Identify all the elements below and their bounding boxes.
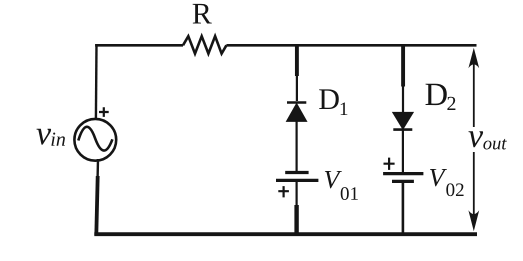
battery V01 plus polarity mark — [278, 186, 289, 197]
wire: D2 branch middle — [402, 130, 404, 173]
wire: top rail left segment — [95, 44, 183, 47]
vout arrow head down — [468, 210, 479, 231]
label V02 — [430, 169, 464, 196]
diode D1 cathode bar — [287, 101, 306, 104]
diode D2 triangle (anode, pointing down) — [393, 112, 414, 129]
wire: left vertical lower thin segment — [96, 159, 99, 178]
wire: D2 branch top stub (bold) — [401, 44, 405, 86]
battery V02 long plate (top) — [383, 172, 423, 175]
AC source plus polarity mark — [99, 107, 109, 117]
battery V01 long plate (bottom) — [276, 179, 318, 182]
vout arrow head up — [468, 48, 479, 68]
wire: D1 branch lower — [296, 182, 298, 207]
label D2 — [426, 84, 456, 110]
diode D2 cathode bar — [393, 128, 412, 131]
AC source v_in: sine wave — [78, 127, 112, 151]
wire: D1 branch top stub (bold) — [295, 44, 299, 76]
wire: bottom rail — [94, 232, 477, 236]
wire: D1 branch upper — [296, 75, 298, 102]
label D1 — [319, 89, 347, 115]
label R — [193, 4, 212, 24]
resistor R — [183, 36, 226, 53]
wire: top rail right segment — [226, 44, 476, 47]
diode D1 triangle (anode, pointing up) — [287, 104, 307, 122]
wire: D2 branch lower — [402, 182, 405, 234]
battery V02 plus polarity mark — [384, 158, 395, 170]
label v_out — [468, 131, 506, 149]
wire: left vertical lower bold segment — [96, 176, 97, 235]
wire: D1 branch middle — [296, 121, 298, 172]
label V01 — [325, 171, 358, 200]
vout arrow shaft lower — [473, 152, 475, 221]
wire: D2 branch upper — [402, 85, 404, 112]
wire: left vertical upper — [95, 44, 98, 119]
AC source v_in: circle — [74, 119, 116, 161]
vout arrow shaft upper — [473, 59, 475, 128]
battery V02 short plate (bottom) — [392, 180, 414, 183]
label v_in — [36, 129, 65, 146]
battery V01 short plate (top) — [285, 171, 308, 174]
wire: D1 branch bottom stub (bold) — [294, 205, 298, 234]
